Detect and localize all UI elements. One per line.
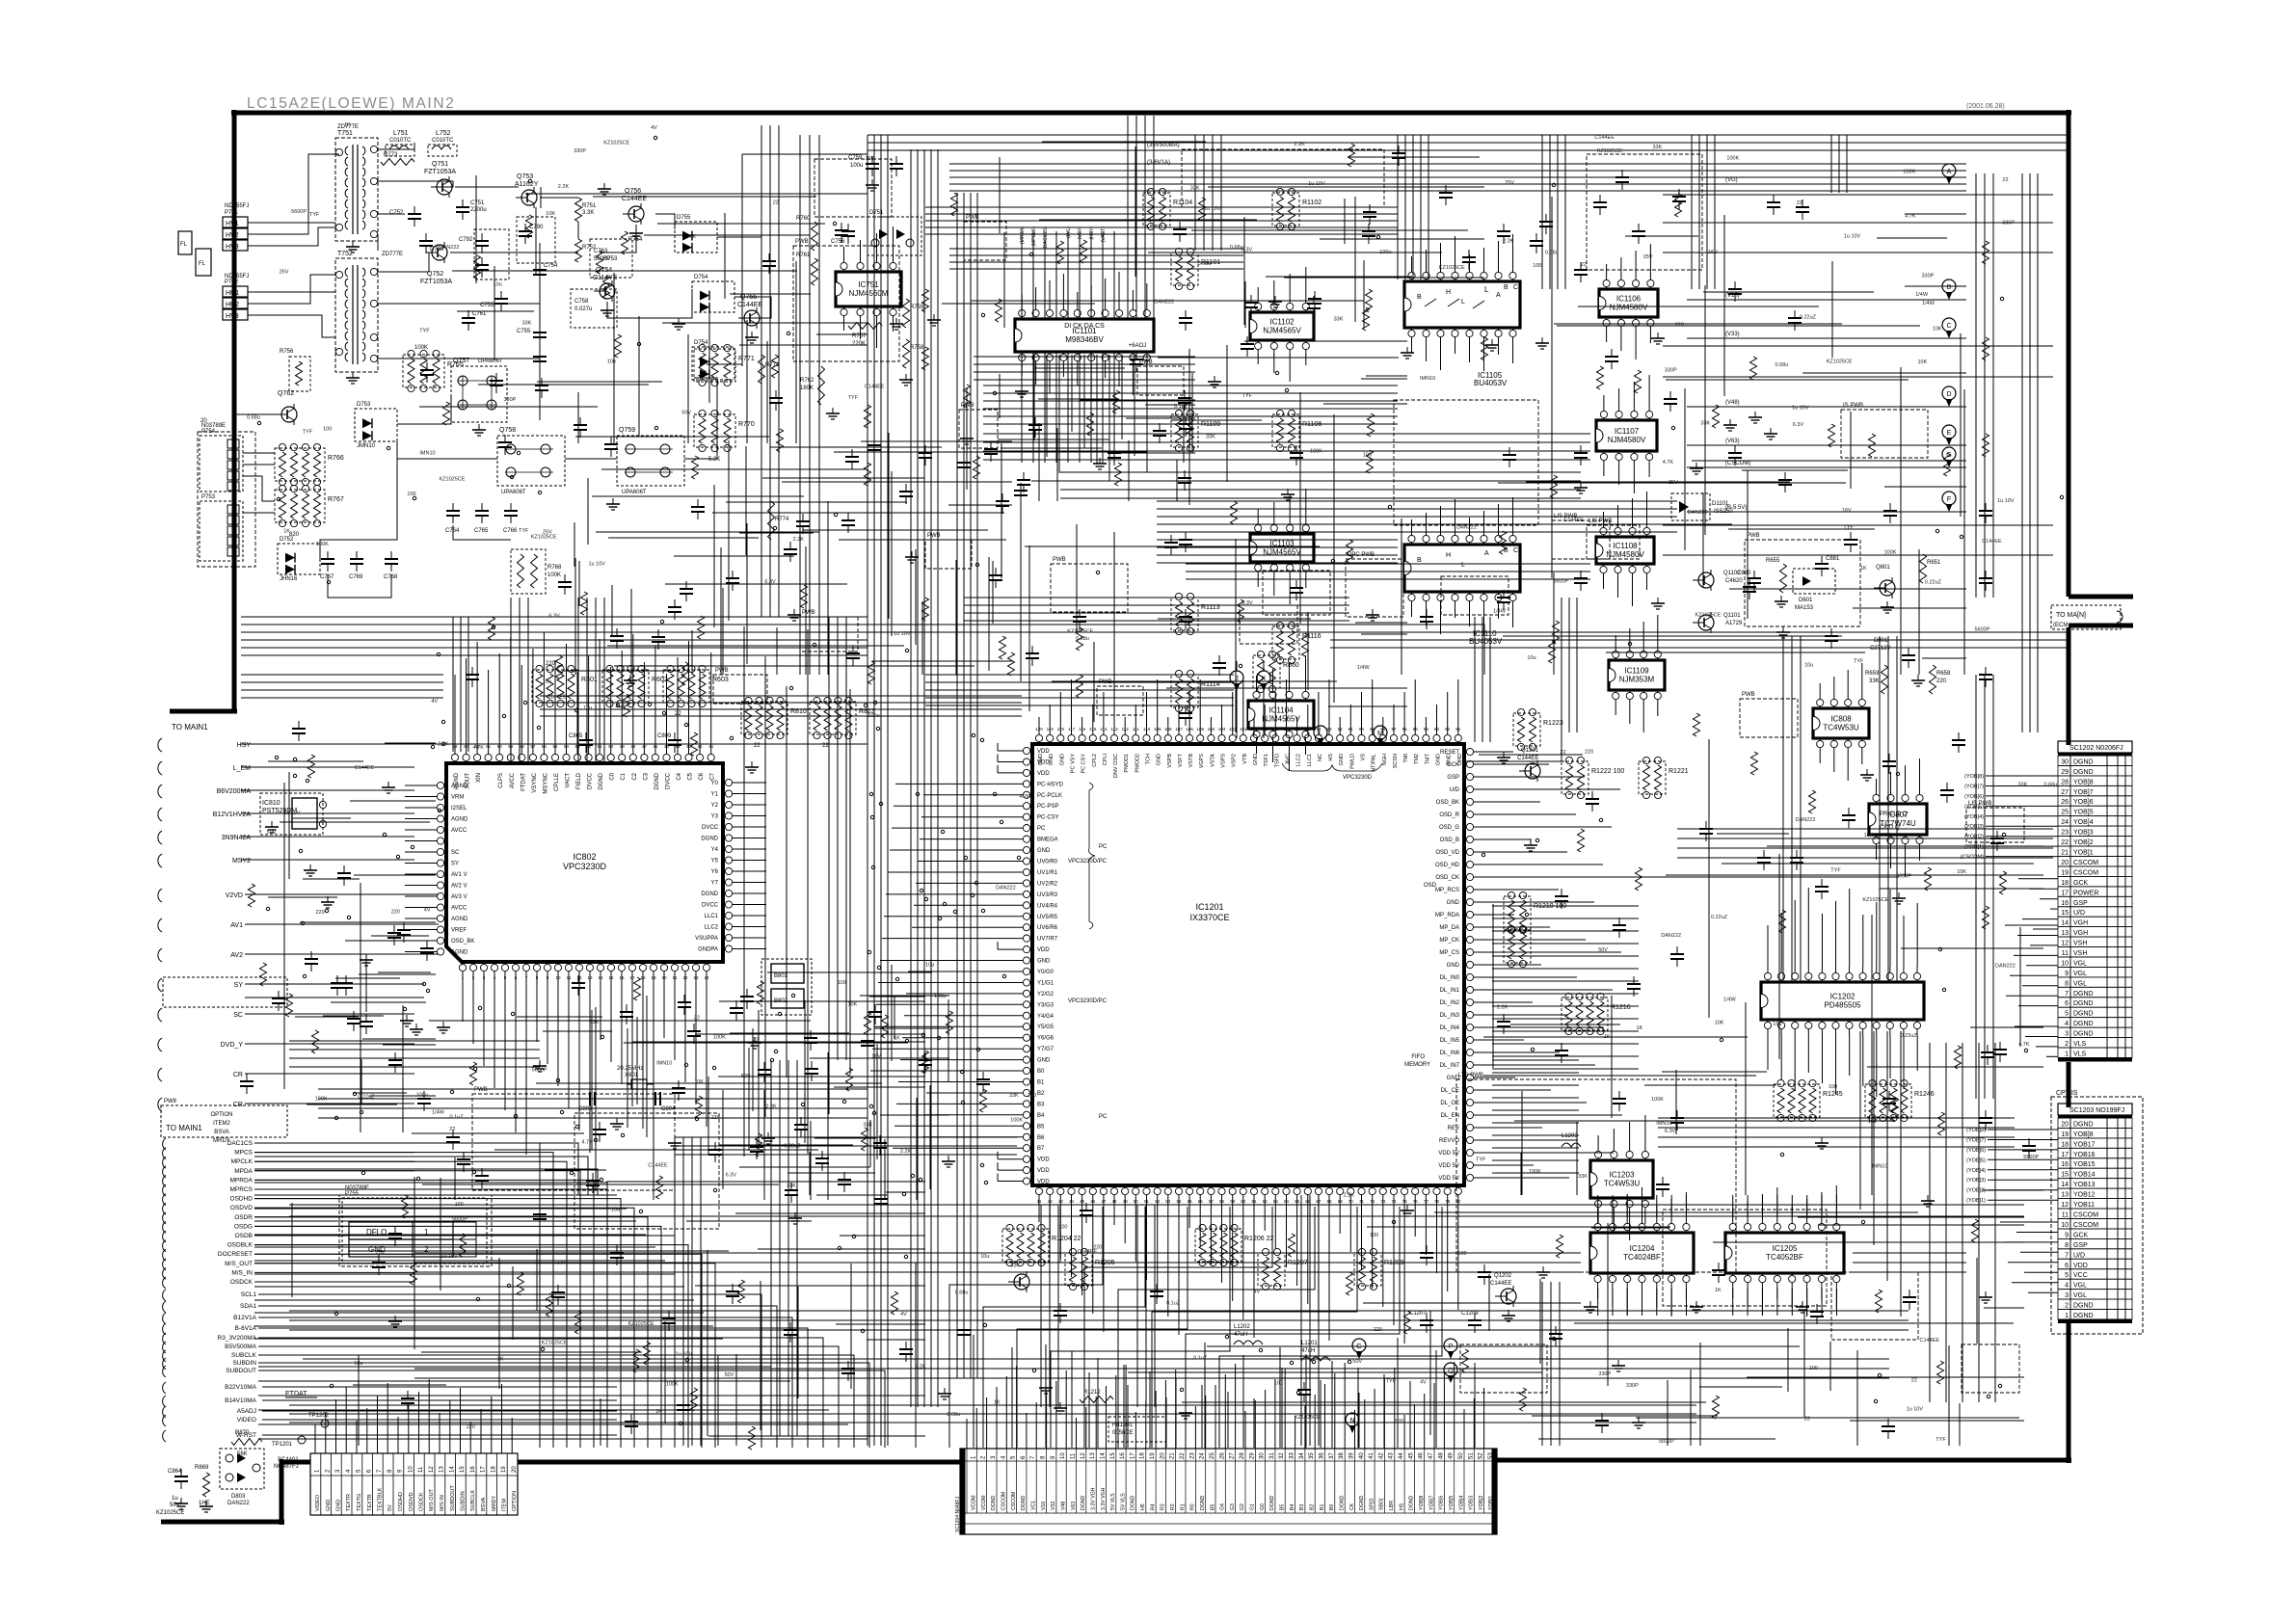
- svg-text:330P: 330P: [574, 148, 586, 154]
- svg-text:11: 11: [2062, 950, 2069, 957]
- left connector labels group6: [163, 1382, 166, 1394]
- wire: [254, 1286, 684, 1288]
- svg-text:25: 25: [2061, 810, 2069, 816]
- svg-text:C1207: C1207: [1409, 1311, 1427, 1317]
- wire verticals x1850 mid: [1782, 636, 1784, 983]
- svg-text:UV1/R1: UV1/R1: [1037, 870, 1058, 876]
- dashed box bottom-left P755: [339, 1195, 492, 1266]
- svg-text:NO487FJ: NO487FJ: [274, 1464, 299, 1470]
- resistor: [1944, 453, 1951, 476]
- capacitor: [1574, 269, 1588, 271]
- svg-text:5600P: 5600P: [1975, 626, 1990, 632]
- svg-text:0.68u: 0.68u: [1775, 362, 1789, 368]
- svg-text:LLC1: LLC1: [1307, 754, 1313, 766]
- svg-text:U/D: U/D: [2073, 910, 2085, 917]
- svg-text:9: 9: [2065, 1232, 2069, 1238]
- dashed region box PWB: [1740, 699, 1798, 737]
- svg-text:GND: GND: [336, 1500, 342, 1511]
- capacitor: [1497, 597, 1510, 599]
- svg-text:116: 116: [1079, 727, 1086, 732]
- svg-text:1: 1: [2065, 1051, 2069, 1058]
- svg-text:CR: CR: [233, 1072, 243, 1078]
- svg-text:HSY: HSY: [237, 742, 252, 749]
- svg-text:33: 33: [1290, 1452, 1295, 1459]
- svg-text:C144EE: C144EE: [355, 765, 375, 771]
- svg-text:1u 10V: 1u 10V: [1204, 206, 1221, 212]
- svg-text:1HE: 1HE: [199, 1501, 210, 1506]
- wire: [1464, 713, 1562, 761]
- svg-text:PWB: PWB: [802, 610, 815, 616]
- svg-text:51: 51: [1468, 1452, 1474, 1459]
- svg-text:DGND: DGND: [2073, 769, 2094, 776]
- svg-text:5600P: 5600P: [1659, 1439, 1674, 1445]
- svg-text:330P: 330P: [1598, 1371, 1611, 1377]
- svg-text:Y7/G7: Y7/G7: [1037, 1047, 1055, 1052]
- capacitor: [1574, 452, 1588, 454]
- capacitor: [1728, 452, 1742, 454]
- svg-text:1u 10V: 1u 10V: [894, 631, 911, 637]
- svg-text:10: 10: [2061, 1222, 2069, 1229]
- svg-text:47uH: 47uH: [1234, 1332, 1247, 1338]
- svg-text:OSD_B: OSD_B: [1440, 838, 1459, 843]
- svg-text:R768: R768: [547, 565, 562, 571]
- svg-text:Y1/G1: Y1/G1: [1037, 981, 1055, 987]
- svg-text:B: B: [1504, 284, 1508, 291]
- svg-text:18: 18: [492, 1466, 497, 1473]
- svg-text:D755: D755: [677, 215, 691, 221]
- wire region boost right of IC802: [880, 1114, 949, 1116]
- R1212 small: [1080, 1397, 1113, 1403]
- svg-text:FZT1053A: FZT1053A: [420, 279, 452, 285]
- wire: [241, 766, 414, 768]
- svg-text:1/4W: 1/4W: [1493, 608, 1507, 614]
- transistor Q754: [600, 283, 615, 299]
- svg-text:N: N: [1349, 1418, 1354, 1424]
- Q1202 circle dup: [1014, 1274, 1029, 1290]
- C880 cap: [1748, 577, 1761, 579]
- capacitor: [475, 1175, 489, 1177]
- svg-text:100K: 100K: [1010, 1118, 1023, 1124]
- R1201 FB1201: [1108, 1417, 1166, 1442]
- wire bus y1130 left: [318, 1088, 868, 1090]
- svg-text:2.2K: 2.2K: [1344, 1193, 1355, 1199]
- IC807 pin stubs: [1876, 787, 1878, 789]
- wire: [453, 525, 511, 540]
- svg-text:14: 14: [1101, 1452, 1107, 1459]
- ground: [674, 1137, 676, 1143]
- svg-text:16V: 16V: [871, 1054, 881, 1060]
- dashed region box PWB: [1097, 686, 1143, 715]
- wire region boost bottom band2: [1713, 1241, 2024, 1243]
- svg-text:Q752: Q752: [427, 271, 443, 278]
- wire: [378, 358, 540, 359]
- resistor: [922, 347, 929, 370]
- node marker N: [1346, 1413, 1359, 1426]
- resistor: [1347, 540, 1353, 563]
- svg-text:C5: C5: [688, 772, 694, 780]
- capacitor: [1825, 635, 1838, 637]
- svg-text:TEXTB: TEXTB: [367, 1494, 373, 1511]
- svg-text:42: 42: [1378, 1452, 1384, 1459]
- svg-text:(2001.06.28): (2001.06.28): [1966, 103, 2005, 110]
- cap C794 pair: [533, 332, 547, 333]
- svg-text:3.3K: 3.3K: [582, 210, 594, 216]
- capacitor: [1670, 953, 1684, 955]
- svg-text:1K: 1K: [497, 1357, 504, 1363]
- svg-text:C: C: [1513, 284, 1518, 291]
- svg-text:10u: 10u: [611, 1207, 620, 1212]
- sheet border frame top: [231, 111, 2071, 116]
- svg-text:CSCOM: CSCOM: [2073, 1222, 2098, 1229]
- dashed region box LIS PWB: [1587, 525, 1640, 559]
- wire region boost top-mid: [1042, 141, 1206, 143]
- dashed region box: [1394, 400, 1538, 525]
- svg-text:TM2: TM2: [1414, 754, 1420, 764]
- svg-text:TO MAIN1: TO MAIN1: [166, 1124, 202, 1132]
- resistor array R1218: [1504, 930, 1531, 963]
- wire verticals x2050 mid: [1975, 675, 1977, 1099]
- svg-text:4.7K: 4.7K: [1663, 460, 1674, 466]
- svg-text:0.68u: 0.68u: [947, 1412, 960, 1418]
- diode block D752: [278, 544, 320, 574]
- wire region boost left of IC802: [345, 940, 436, 942]
- svg-text:FZT1053A: FZT1053A: [424, 169, 456, 175]
- svg-text:100: 100: [1533, 263, 1541, 269]
- svg-text:22: 22: [1911, 1377, 1917, 1383]
- capacitor: [466, 674, 479, 676]
- svg-text:C144EE: C144EE: [1594, 135, 1615, 141]
- svg-text:P752: P752: [225, 279, 239, 285]
- svg-text:(YOB]3): (YOB]3): [1966, 1178, 1986, 1184]
- sheet border stub upper: [2069, 595, 2133, 599]
- ground: [1802, 1301, 1803, 1307]
- svg-text:87: 87: [1391, 727, 1397, 732]
- crystal X801: [631, 1079, 647, 1089]
- wires into SC1202: [1986, 775, 2058, 777]
- wire: [378, 303, 540, 305]
- dashed region box PWB: [713, 675, 767, 704]
- svg-text:M/S_OUT: M/S_OUT: [225, 1261, 253, 1267]
- svg-text:41: 41: [1036, 1199, 1042, 1204]
- svg-text:R773: R773: [384, 152, 398, 158]
- IC802 bottom pins: [459, 964, 466, 971]
- wire staircase group5: [258, 1294, 761, 1448]
- svg-text:SUBCLK: SUBCLK: [231, 1352, 257, 1359]
- svg-text:17: 17: [629, 975, 635, 980]
- svg-text:R870: R870: [235, 1430, 250, 1436]
- capacitor: [572, 982, 585, 984]
- svg-text:DAN222: DAN222: [1796, 817, 1816, 823]
- svg-text:YOB[3: YOB[3: [1469, 1496, 1475, 1510]
- node marker Q: [1444, 1363, 1457, 1376]
- svg-text:FTDAT: FTDAT: [521, 773, 526, 791]
- resistor R754: [622, 231, 628, 254]
- svg-text:OSDBLK: OSDBLK: [227, 1242, 254, 1249]
- svg-text:L752: L752: [436, 130, 451, 137]
- svg-text:TYF: TYF: [1386, 1378, 1397, 1384]
- wire bus top right horizontal2: [949, 163, 1966, 165]
- svg-text:16: 16: [2061, 900, 2069, 907]
- cap C790: [519, 230, 532, 232]
- svg-text:NGH: NGH: [1382, 754, 1388, 765]
- resistor: [518, 1272, 524, 1295]
- svg-text:OSDVD: OSDVD: [230, 1205, 253, 1211]
- svg-text:2.2K: 2.2K: [558, 184, 570, 190]
- svg-text:GND: GND: [1447, 900, 1460, 906]
- connector P753 N03789E: [200, 501, 243, 561]
- svg-text:100K: 100K: [315, 1097, 328, 1103]
- svg-text:100K: 100K: [547, 572, 561, 578]
- svg-text:97: 97: [1284, 727, 1290, 732]
- svg-text:54: 54: [564, 744, 570, 749]
- svg-text:R1206 22: R1206 22: [1244, 1236, 1273, 1242]
- wire verticals x530 mid: [510, 598, 512, 761]
- svg-text:VIDEO: VIDEO: [237, 1417, 256, 1423]
- svg-text:DGND: DGND: [599, 772, 604, 789]
- R655 R656: [1780, 564, 1787, 593]
- svg-text:22: 22: [773, 200, 779, 206]
- svg-text:P751: P751: [225, 210, 239, 216]
- svg-text:VSTB: VSTB: [1188, 754, 1194, 768]
- svg-text:TO MAIN1: TO MAIN1: [172, 723, 208, 732]
- svg-text:11: 11: [418, 1466, 424, 1473]
- capacitor: [890, 163, 903, 165]
- capacitor: [841, 519, 855, 521]
- wire: [243, 452, 275, 454]
- svg-text:G1: G1: [1250, 1503, 1256, 1510]
- capacitor: [1497, 230, 1510, 232]
- resistor: [575, 1311, 582, 1334]
- svg-text:33K: 33K: [1010, 1263, 1020, 1268]
- svg-text:(35V500MA): (35V500MA): [1147, 143, 1180, 148]
- svg-text:R1222 100: R1222 100: [1591, 768, 1624, 775]
- svg-text:9: 9: [2065, 971, 2069, 977]
- svg-text:(V48): (V48): [1725, 400, 1740, 406]
- svg-text:32: 32: [1279, 1452, 1285, 1459]
- svg-text:YOB]3: YOB]3: [2073, 830, 2094, 837]
- wires into SC1204: [966, 1419, 968, 1449]
- resistor: [1983, 241, 1989, 264]
- svg-text:PWB: PWB: [795, 239, 809, 245]
- svg-text:DL_IN6: DL_IN6: [1440, 1051, 1460, 1056]
- resistor array R860: [1253, 655, 1280, 688]
- svg-text:SUBDOUT: SUBDOUT: [450, 1484, 456, 1511]
- wire: [684, 378, 717, 459]
- svg-text:GSP: GSP: [2073, 1242, 2088, 1249]
- resistor array R766: [275, 448, 325, 481]
- wire verticals x1500 mid: [1474, 617, 1476, 742]
- svg-text:1u 10V: 1u 10V: [676, 1352, 693, 1358]
- svg-text:2: 2: [2065, 1041, 2069, 1048]
- wire: [1687, 444, 1966, 446]
- connector SC4401 NO487FJ: [310, 1453, 518, 1515]
- svg-text:Y0: Y0: [711, 781, 719, 786]
- svg-text:V16: V16: [1041, 1502, 1047, 1510]
- gnd tr1: [352, 241, 354, 247]
- svg-text:C756: C756: [831, 239, 845, 245]
- svg-text:11: 11: [2062, 1212, 2069, 1219]
- svg-text:55: 55: [552, 744, 558, 749]
- svg-text:ISS250: ISS250: [1714, 509, 1733, 515]
- svg-text:SUBDOUT: SUBDOUT: [226, 1368, 256, 1374]
- svg-text:TYF: TYF: [848, 395, 859, 401]
- wire: [245, 997, 424, 998]
- resistor: [1289, 1234, 1295, 1257]
- svg-text:BSVA: BSVA: [214, 1130, 229, 1135]
- wire: [258, 1395, 810, 1397]
- resistor: [1713, 405, 1720, 428]
- svg-text:B5V500MA: B5V500MA: [225, 1344, 257, 1350]
- wire bus y400 center: [983, 385, 1398, 386]
- svg-text:R1223: R1223: [1543, 720, 1563, 727]
- svg-text:19: 19: [501, 1466, 507, 1473]
- svg-text:220: 220: [1374, 1327, 1382, 1333]
- resistor R773: [381, 159, 414, 166]
- wire: [254, 1208, 627, 1210]
- svg-text:SY: SY: [234, 982, 244, 989]
- svg-text:48: 48: [1111, 1199, 1117, 1204]
- resistor: [865, 463, 871, 486]
- svg-text:Y5/G5: Y5/G5: [1037, 1024, 1055, 1030]
- wire extra drops SC1204: [973, 1335, 974, 1448]
- svg-text:62: 62: [1263, 1199, 1268, 1204]
- resistor: [1694, 713, 1700, 736]
- capacitor: [417, 1098, 431, 1100]
- svg-text:B5: B5: [1280, 1504, 1286, 1510]
- Q754 JMV10 diode box: [692, 347, 734, 380]
- svg-text:85: 85: [1413, 727, 1419, 732]
- capacitor: [996, 500, 1009, 502]
- svg-text:GND: GND: [1447, 963, 1460, 969]
- svg-text:LLC2: LLC2: [1296, 754, 1302, 766]
- svg-text:0.22uZ: 0.22uZ: [1925, 580, 1942, 586]
- svg-text:U/D: U/D: [1450, 787, 1460, 793]
- transistor Q1202 C144EE: [1501, 1289, 1516, 1304]
- svg-text:30: 30: [1260, 1452, 1266, 1459]
- svg-text:Y6/G6: Y6/G6: [1037, 1036, 1055, 1042]
- svg-text:T752: T752: [337, 251, 353, 257]
- wire verticals x830: [799, 135, 801, 675]
- svg-text:18: 18: [2061, 1141, 2069, 1148]
- svg-text:DAN222: DAN222: [1661, 933, 1681, 939]
- wire verticals x1600 top: [1541, 135, 1543, 289]
- IC1201 bottom pins: [1035, 1187, 1042, 1194]
- wire: [258, 1380, 790, 1382]
- svg-text:100K: 100K: [666, 1381, 679, 1387]
- svg-text:C769: C769: [349, 574, 363, 580]
- resistor: [980, 1089, 987, 1112]
- svg-text:96: 96: [1295, 727, 1300, 732]
- wire bus bottom y1360: [289, 1310, 1909, 1312]
- resistor array R1102: [1272, 193, 1299, 226]
- svg-text:V32: V32: [1051, 1502, 1056, 1510]
- svg-text:KZ1025CE: KZ1025CE: [628, 1321, 654, 1327]
- svg-text:KZ1025CE: KZ1025CE: [1295, 1415, 1321, 1421]
- svg-text:0.1uZ: 0.1uZ: [450, 1114, 465, 1120]
- dashed region box PWB: [1745, 540, 1860, 626]
- wire: [254, 1299, 694, 1301]
- wires into SC1203: [1988, 1129, 2058, 1131]
- svg-text:C765: C765: [474, 528, 489, 534]
- svg-text:33K: 33K: [1578, 1174, 1588, 1180]
- svg-text:SC: SC: [233, 1012, 243, 1019]
- wire bus bottom y1300a: [414, 1252, 1581, 1254]
- wire verticals x1350 bottom: [1300, 1195, 1302, 1446]
- capacitor: [533, 1213, 547, 1215]
- svg-text:118: 118: [1057, 727, 1065, 732]
- svg-text:B801: B801: [774, 973, 788, 979]
- wire: [717, 154, 868, 237]
- svg-text:YOB]1: YOB]1: [2073, 850, 2094, 857]
- svg-text:PC: PC: [1099, 1114, 1108, 1120]
- svg-text:R761: R761: [796, 253, 811, 258]
- wire bus IC1101 bottom: [1021, 352, 1023, 463]
- svg-text:Q758: Q758: [499, 427, 516, 434]
- node marker J: [1230, 671, 1243, 684]
- svg-text:B12V1HV2A: B12V1HV2A: [213, 811, 252, 818]
- wire vertical JK: [1236, 686, 1238, 738]
- capacitor: [1613, 1098, 1626, 1100]
- svg-text:DGND: DGND: [2073, 1021, 2094, 1027]
- capacitor: [861, 1040, 874, 1042]
- svg-text:VDD: VDD: [1037, 1157, 1050, 1163]
- svg-text:TYF: TYF: [419, 329, 430, 334]
- svg-text:(YOB]1): (YOB]1): [1966, 1198, 1986, 1204]
- svg-text:4.7K: 4.7K: [581, 1140, 593, 1146]
- wire: [241, 836, 414, 838]
- svg-text:YOB11: YOB11: [2073, 1202, 2095, 1209]
- svg-text:GSP: GSP: [1447, 775, 1459, 781]
- svg-text:16V: 16V: [1842, 508, 1852, 514]
- svg-text:OSD: OSD: [1424, 883, 1437, 889]
- svg-text:PR CLD Q: PR CLD Q: [1880, 811, 1908, 817]
- dashed region box: [574, 1113, 719, 1229]
- svg-text:R766: R766: [328, 455, 344, 462]
- svg-text:DAN222: DAN222: [440, 245, 460, 251]
- svg-text:VDD: VDD: [1037, 771, 1050, 777]
- svg-text:DGND: DGND: [1339, 1495, 1345, 1510]
- resistor: [865, 1012, 871, 1035]
- svg-text:SP[O: SP[O: [1369, 1499, 1375, 1510]
- wire: [320, 441, 397, 559]
- left connector labels group4: [163, 1138, 166, 1150]
- svg-text:KZ1025CE: KZ1025CE: [1597, 148, 1623, 154]
- svg-text:104: 104: [1208, 727, 1215, 732]
- wire right of IC1201 lower: [1492, 1059, 1579, 1061]
- wire: [254, 1246, 655, 1248]
- svg-text:NJM4580V: NJM4580V: [1610, 304, 1648, 312]
- svg-text:63: 63: [1273, 1199, 1279, 1204]
- svg-text:GNDPA: GNDPA: [698, 947, 718, 953]
- svg-text:330P: 330P: [1626, 1383, 1639, 1389]
- wire region boost IC1101 south: [1080, 399, 1195, 401]
- capacitor: [726, 1290, 739, 1292]
- resistor R751: [575, 198, 582, 222]
- svg-text:0.68u: 0.68u: [2044, 783, 2058, 788]
- svg-text:RND: RND: [1049, 754, 1055, 765]
- svg-text:C864: C864: [168, 1469, 182, 1475]
- svg-text:IC1102: IC1102: [1269, 318, 1295, 327]
- switch IC1105: [1404, 281, 1520, 328]
- wire marker feeds: [1195, 674, 1237, 676]
- wire: [248, 222, 335, 224]
- svg-text:VGL: VGL: [2073, 961, 2087, 968]
- resistor: [1983, 906, 1989, 929]
- svg-text:(V33): (V33): [1725, 332, 1740, 337]
- transistor Q751: [437, 179, 452, 195]
- svg-text:47uH: 47uH: [1301, 1348, 1315, 1354]
- capacitor: [899, 491, 913, 492]
